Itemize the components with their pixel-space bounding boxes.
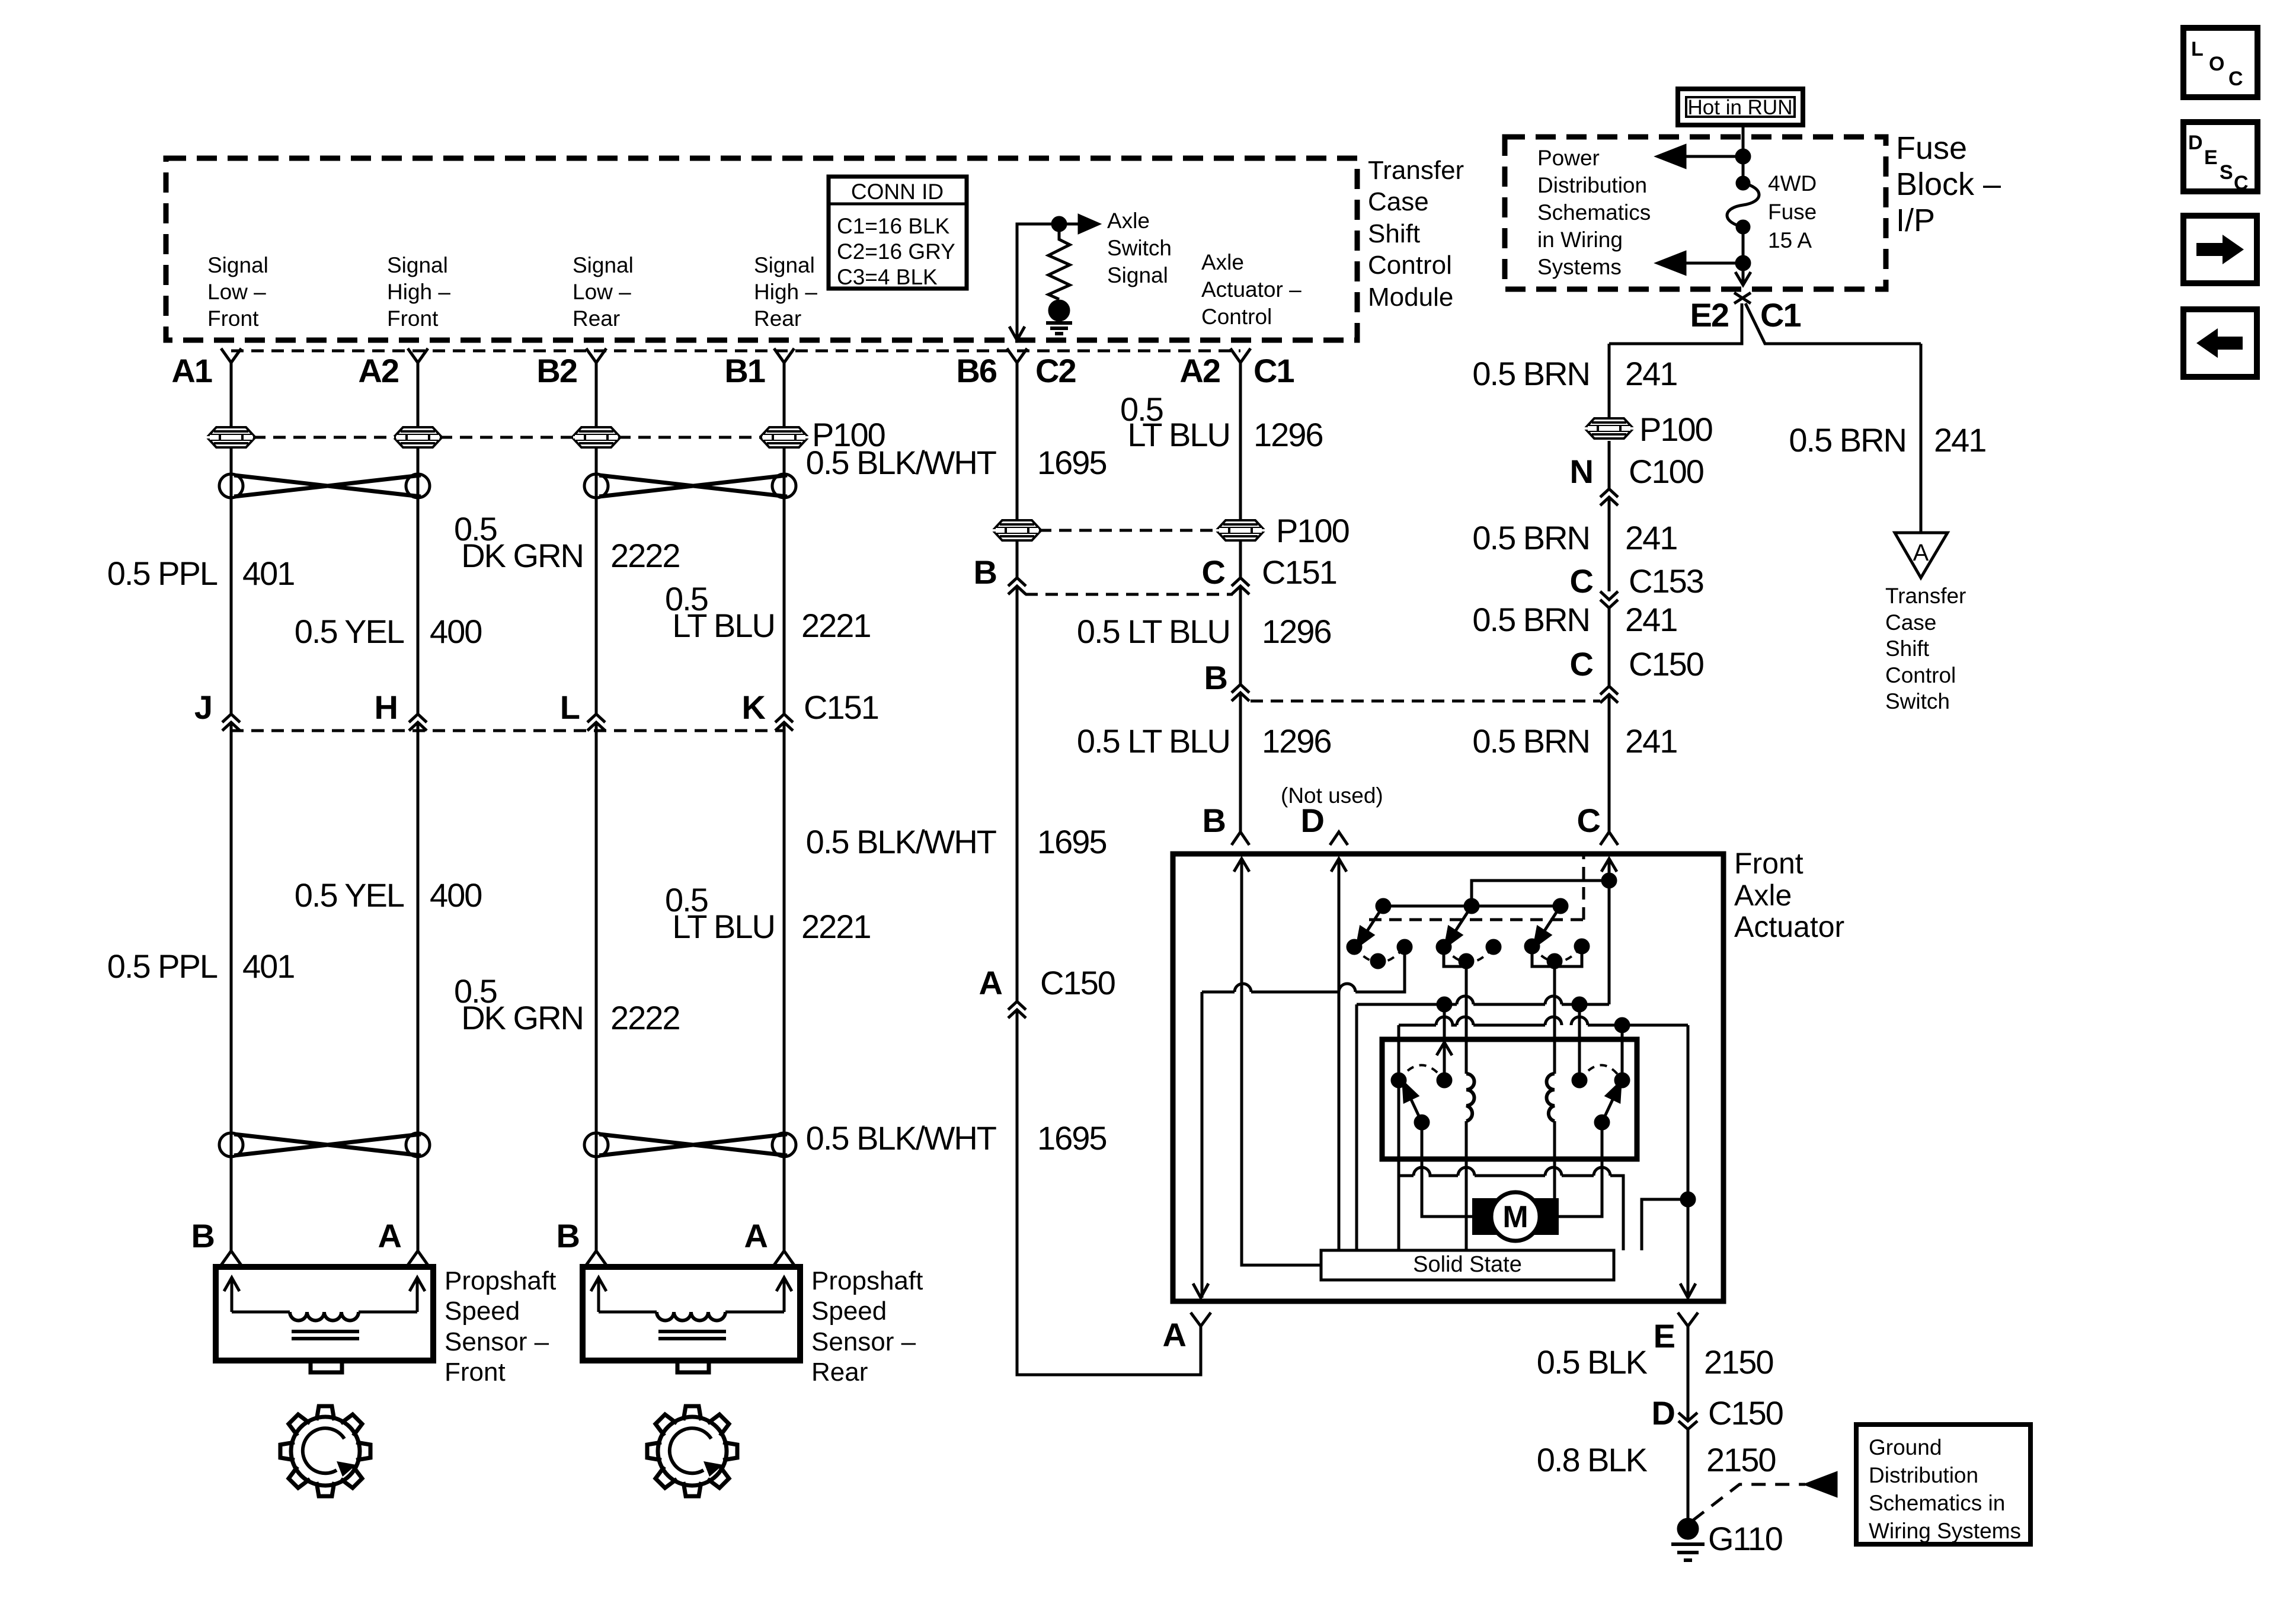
G110 ground lines <box>1671 1544 1705 1560</box>
svg-text:B1: B1 <box>724 352 765 389</box>
switch dashed arcs <box>1354 947 1405 962</box>
switch common bus <box>1383 905 1560 908</box>
C C150 connector chevrons <box>1600 686 1618 703</box>
row1 distribution line <box>1357 996 1609 1004</box>
front sensor inductor <box>290 1312 359 1321</box>
wire BRN to C150 <box>1608 608 1611 686</box>
E pin down arrow <box>1680 1283 1696 1298</box>
svg-text:0.5 LT BLU: 0.5 LT BLU <box>1077 613 1230 650</box>
svg-text:B: B <box>1204 659 1227 696</box>
svg-text:D: D <box>1652 1394 1675 1432</box>
svg-text:Low –: Low – <box>573 280 631 304</box>
svg-text:1695: 1695 <box>1037 1119 1107 1157</box>
right arrow icon <box>2196 235 2244 264</box>
svg-text:Actuator: Actuator <box>1734 910 1844 943</box>
left arrow icon <box>2196 328 2243 358</box>
svg-text:Propshaft: Propshaft <box>811 1266 923 1295</box>
svg-text:P100: P100 <box>1639 411 1712 448</box>
wire A2 upper segment <box>417 363 420 714</box>
Transfer Case Shift Control Module dashed box <box>166 158 1357 340</box>
left coil <box>1466 1074 1475 1121</box>
wire BRN to actuator pin C <box>1608 694 1611 832</box>
motor left feed wire <box>1422 1122 1472 1217</box>
svg-text:C: C <box>1570 645 1593 683</box>
svg-text:Module: Module <box>1368 283 1453 312</box>
wire B2 lower segment <box>595 722 598 1251</box>
svg-text:Transfer: Transfer <box>1368 156 1464 185</box>
switch arc bottom dots <box>1371 955 1384 968</box>
wire A1 upper segment <box>230 363 233 714</box>
C151 connector chevrons on K wire <box>775 714 793 731</box>
middle switch left contact L wire <box>1444 947 1466 966</box>
svg-text:Axle: Axle <box>1107 209 1150 233</box>
svg-text:C150: C150 <box>1708 1394 1783 1432</box>
svg-text:C150: C150 <box>1629 645 1703 683</box>
svg-text:Front: Front <box>1734 847 1803 880</box>
motor right feed wire <box>1559 1122 1602 1217</box>
svg-text:Systems: Systems <box>1537 255 1622 279</box>
svg-text:Block –: Block – <box>1896 167 2001 202</box>
fuse feed junction dot upper <box>1737 150 1750 163</box>
wire 0.5 BRN 241 right branch <box>1920 344 1923 533</box>
C C153 connector chevrons pointing down <box>1600 591 1618 608</box>
svg-text:L: L <box>2191 38 2204 60</box>
svg-text:0.5 BLK/WHT: 0.5 BLK/WHT <box>806 1119 996 1157</box>
svg-text:DK GRN: DK GRN <box>461 537 583 574</box>
ground reference dashed line <box>1693 1484 1805 1521</box>
svg-text:B: B <box>1203 802 1225 839</box>
C151 connector chevrons on H wire <box>409 714 427 731</box>
svg-text:Control: Control <box>1885 663 1956 687</box>
wire 2360 left contact column <box>1398 1025 1400 1250</box>
svg-text:Sensor –: Sensor – <box>811 1327 916 1356</box>
svg-text:CONN ID: CONN ID <box>851 180 944 204</box>
DESC icon box <box>2183 122 2257 191</box>
twisted pair symbol B2/B1 lower <box>584 1133 796 1157</box>
svg-text:M: M <box>1502 1200 1528 1234</box>
axle switch ground ball <box>1050 301 1069 320</box>
svg-text:S: S <box>2220 161 2233 184</box>
rear sensor tab <box>677 1361 709 1372</box>
actuator internal up arrow C <box>1601 859 1617 872</box>
actuator internal up arrow B <box>1234 859 1249 872</box>
P100 grommet on B1 <box>762 427 806 447</box>
E column junction dot <box>1681 1193 1694 1206</box>
svg-text:Signal: Signal <box>754 253 815 277</box>
LOC icon box <box>2183 28 2257 97</box>
inner box dashed arcs <box>1399 1065 1444 1081</box>
row2 distribution line <box>1399 1017 1688 1025</box>
svg-text:241: 241 <box>1625 355 1677 392</box>
front gear wheel <box>291 1417 360 1486</box>
C1 leg wire <box>1745 303 1921 344</box>
CONN ID box <box>829 177 967 289</box>
motor terminal blocks <box>1472 1198 1499 1235</box>
svg-text:2221: 2221 <box>801 908 871 945</box>
svg-text:Speed: Speed <box>811 1297 887 1326</box>
svg-text:B2: B2 <box>536 352 577 389</box>
svg-text:Hot in RUN: Hot in RUN <box>1688 96 1793 119</box>
A pin Y below actuator <box>1191 1313 1211 1326</box>
rear sensor core lines <box>658 1331 726 1339</box>
svg-text:High –: High – <box>387 280 450 304</box>
twisted pair symbol B2/B1 upper <box>584 474 796 498</box>
svg-text:A2: A2 <box>358 352 398 389</box>
wire BRN to C153 <box>1608 497 1611 591</box>
svg-text:Signal: Signal <box>573 253 634 277</box>
svg-text:C100: C100 <box>1629 453 1703 490</box>
bus dots <box>1377 900 1390 913</box>
pin A1 connector Y <box>221 348 241 365</box>
svg-text:Fuse: Fuse <box>1768 200 1817 224</box>
actuator internal wire C <box>1608 859 1611 1004</box>
svg-text:D: D <box>1301 802 1324 839</box>
svg-text:1296: 1296 <box>1262 613 1331 650</box>
sensor rear pin B lambda <box>586 1251 606 1265</box>
svg-text:A1: A1 <box>171 352 212 389</box>
left coil lower wire to solid state <box>1465 1121 1468 1250</box>
svg-text:P100: P100 <box>1276 512 1349 549</box>
pin B1 connector Y <box>774 348 794 363</box>
N C100 connector chevrons <box>1600 489 1618 505</box>
P100 grommet on C1 wire <box>1219 520 1262 540</box>
svg-text:DK GRN: DK GRN <box>461 999 583 1036</box>
actuator pin C lambda <box>1600 832 1618 845</box>
fuse feed junction dot lower <box>1737 257 1750 270</box>
svg-text:Power: Power <box>1537 146 1600 170</box>
B/C C150 dashed connector line <box>1251 700 1600 703</box>
motor inner box <box>1382 1039 1637 1159</box>
svg-text:Control: Control <box>1368 251 1452 280</box>
P100 grommet on A2 <box>396 427 440 447</box>
svg-text:241: 241 <box>1625 601 1677 638</box>
axle switch signal right arrowhead <box>1079 216 1098 232</box>
svg-text:Front: Front <box>445 1358 506 1387</box>
svg-text:4WD: 4WD <box>1768 171 1817 196</box>
svg-text:C150: C150 <box>1040 964 1115 1001</box>
wire BRN below P100 <box>1608 441 1611 489</box>
svg-text:0.5 YEL: 0.5 YEL <box>295 613 404 650</box>
wire A1 lower segment <box>230 722 233 1251</box>
switch feed line to bus <box>1472 881 1609 906</box>
svg-text:Fuse: Fuse <box>1896 130 1967 166</box>
svg-text:0.5 BRN: 0.5 BRN <box>1472 355 1590 392</box>
P100 dashed grommet link line <box>253 436 762 439</box>
actuator internal up arrow D <box>1331 859 1347 872</box>
svg-text:C: C <box>2234 172 2249 194</box>
E2 leg wire <box>1609 303 1742 344</box>
svg-text:2150: 2150 <box>1704 1343 1773 1381</box>
svg-text:Solid State: Solid State <box>1413 1252 1522 1277</box>
power distribution arrow upper <box>1658 146 1743 167</box>
C151 connector chevrons B on wire 1716 <box>1008 578 1026 594</box>
fuse output wire <box>1742 227 1745 285</box>
sensor front pin A lambda <box>408 1251 428 1265</box>
wire 2093 segment <box>1239 586 1242 684</box>
axle switch down arrow into module edge <box>1009 327 1025 340</box>
CONN ID title separator <box>829 203 967 206</box>
inner up arrow on wire 2437 <box>1437 1042 1452 1055</box>
wire A2 lower segment <box>417 722 420 1251</box>
actuator pin B lambda <box>1232 832 1249 845</box>
left switch output wire to A column <box>1202 947 1405 992</box>
Hot in RUN box <box>1678 89 1803 125</box>
right arrow icon box <box>2183 216 2257 283</box>
inner left wiper <box>1415 1116 1428 1129</box>
pin A2/C1 connector Y <box>1230 348 1251 363</box>
svg-text:Rear: Rear <box>573 306 620 331</box>
svg-text:C: C <box>2228 68 2243 90</box>
svg-text:Front: Front <box>387 306 439 331</box>
E branch to solid state <box>1642 1199 1688 1250</box>
power distribution arrow lower <box>1658 252 1743 274</box>
wire 2093 segment to actuator pin B <box>1239 693 1242 832</box>
svg-text:C: C <box>1202 553 1225 591</box>
E column from row2 <box>1687 1025 1690 1298</box>
svg-text:0.5 YEL: 0.5 YEL <box>295 876 404 914</box>
wire 2623 right switch to right coil <box>1553 961 1556 1074</box>
P100 grommet on B6 wire <box>995 520 1039 540</box>
svg-text:0.5 LT BLU: 0.5 LT BLU <box>1077 722 1230 760</box>
svg-text:0.5 BRN: 0.5 BRN <box>1472 601 1590 638</box>
actuator pin D lambda (not used) <box>1330 832 1348 845</box>
svg-text:A2: A2 <box>1179 352 1220 389</box>
wiper arrow 2 <box>1452 906 1472 936</box>
svg-text:0.5 PPL: 0.5 PPL <box>107 555 218 592</box>
wire B6/C2 down to P100 <box>1016 363 1019 578</box>
svg-text:C153: C153 <box>1629 562 1703 600</box>
front sensor core lines <box>292 1331 359 1339</box>
C151 middle dashed connector line <box>1025 593 1233 596</box>
sensor front pin B lambda <box>221 1251 241 1265</box>
P100 grommet on BRN wire <box>1587 418 1631 438</box>
svg-text:C2: C2 <box>1035 352 1076 389</box>
E wire to C150 <box>1687 1326 1690 1421</box>
svg-text:0.5 BRN: 0.5 BRN <box>1472 519 1590 556</box>
row1 junction dots <box>1438 998 1451 1011</box>
svg-text:C1: C1 <box>1760 296 1801 334</box>
svg-text:400: 400 <box>430 876 481 914</box>
A pin down arrow <box>1193 1283 1208 1298</box>
svg-text:C: C <box>1577 802 1600 839</box>
svg-text:Shift: Shift <box>1368 219 1420 248</box>
pin A2 connector Y <box>408 348 428 363</box>
svg-text:C3=4 BLK: C3=4 BLK <box>837 265 938 289</box>
svg-text:2150: 2150 <box>1706 1441 1776 1478</box>
svg-text:241: 241 <box>1625 722 1677 760</box>
svg-text:Axle: Axle <box>1201 250 1244 274</box>
svg-text:Signal: Signal <box>1107 263 1168 287</box>
Propshaft Speed Sensor Front box <box>216 1267 433 1361</box>
inner box contact dots <box>1392 1074 1405 1087</box>
P100 grommet on B2 <box>574 427 618 447</box>
actuator internal wire D <box>1338 859 1341 1250</box>
svg-text:G110: G110 <box>1708 1520 1782 1557</box>
wire 2737 from row2 to right switch right contact <box>1621 1025 1624 1080</box>
svg-text:Signal: Signal <box>207 253 268 277</box>
fuse element end dots <box>1737 177 1749 189</box>
svg-text:E: E <box>1654 1317 1675 1355</box>
wire 1716 lower route to actuator pin A <box>1017 1010 1201 1375</box>
svg-text:Control: Control <box>1201 305 1272 329</box>
svg-text:N: N <box>1570 453 1593 490</box>
svg-text:O: O <box>2209 53 2224 75</box>
svg-text:C151: C151 <box>1262 553 1336 591</box>
right coil <box>1547 1074 1555 1121</box>
svg-text:Axle: Axle <box>1734 879 1792 912</box>
svg-text:Transfer: Transfer <box>1885 584 1966 608</box>
wire B1 lower segment <box>783 722 786 1251</box>
svg-text:0.5 PPL: 0.5 PPL <box>107 948 218 985</box>
svg-text:A: A <box>744 1217 768 1254</box>
svg-text:A: A <box>1913 540 1929 566</box>
svg-text:B: B <box>557 1217 579 1254</box>
svg-text:A: A <box>1163 1316 1186 1353</box>
svg-text:400: 400 <box>430 613 481 650</box>
G110 ground ball <box>1678 1519 1697 1538</box>
front gear teeth <box>280 1406 370 1496</box>
svg-text:L: L <box>560 689 580 726</box>
svg-text:0.5 BLK/WHT: 0.5 BLK/WHT <box>806 444 996 481</box>
front sensor internal arrows and coil <box>224 1278 425 1312</box>
svg-text:Shift: Shift <box>1885 636 1930 661</box>
D C150 connector chevrons pointing down <box>1678 1413 1697 1429</box>
actuator internal wire B <box>1242 859 1321 1265</box>
pin B2 connector Y <box>586 348 606 363</box>
switch linkage dashed <box>1369 856 1584 920</box>
wire B1 upper segment <box>783 363 786 714</box>
C151 dashed connector line <box>231 729 784 732</box>
svg-text:Case: Case <box>1885 610 1936 635</box>
transfer case shift control switch triangle A <box>1895 533 1948 578</box>
svg-text:0.5 BLK: 0.5 BLK <box>1537 1343 1648 1381</box>
wire A2/C1 down to P100 <box>1239 363 1242 578</box>
wire 1716 segment to A C150 <box>1016 586 1019 1001</box>
svg-text:D: D <box>2188 132 2203 154</box>
switch contact dots row <box>1348 940 1361 953</box>
svg-text:in Wiring: in Wiring <box>1537 228 1623 252</box>
left arrow icon box <box>2183 309 2257 377</box>
P100 dashed link middle <box>1039 529 1219 532</box>
svg-text:C2=16 GRY: C2=16 GRY <box>837 239 955 264</box>
svg-text:C1: C1 <box>1253 352 1294 389</box>
svg-text:0.5 BRN: 0.5 BRN <box>1472 722 1590 760</box>
svg-text:2222: 2222 <box>610 537 680 574</box>
rear sensor inductor <box>657 1312 725 1321</box>
svg-text:0.5 BRN: 0.5 BRN <box>1789 421 1906 459</box>
switch feed junction dot on C <box>1603 874 1616 887</box>
ground reference arrow <box>1806 1473 1836 1496</box>
svg-text:I/P: I/P <box>1896 203 1935 238</box>
svg-text:Speed: Speed <box>445 1297 520 1326</box>
twisted pair symbol A1/A2 upper <box>219 474 430 498</box>
axle switch signal wire with corner <box>1017 224 1079 340</box>
svg-text:C1=16 BLK: C1=16 BLK <box>837 214 950 238</box>
svg-text:Schematics: Schematics <box>1537 200 1651 225</box>
svg-text:401: 401 <box>242 555 294 592</box>
Propshaft Speed Sensor Rear box <box>583 1267 800 1361</box>
svg-text:B: B <box>974 553 996 591</box>
svg-text:K: K <box>742 689 766 726</box>
svg-text:1695: 1695 <box>1037 444 1107 481</box>
svg-text:(Not used): (Not used) <box>1281 783 1383 808</box>
svg-text:Rear: Rear <box>811 1358 868 1387</box>
svg-text:J: J <box>194 689 212 726</box>
C151 connector chevrons C on wire 2093 <box>1232 578 1249 594</box>
svg-text:E: E <box>2204 146 2218 169</box>
rear sensor internal arrows and coil <box>591 1278 792 1312</box>
axle switch resistor <box>1048 224 1070 299</box>
fuse box exit down arrow <box>1735 272 1751 285</box>
svg-text:Low –: Low – <box>207 280 266 304</box>
svg-text:241: 241 <box>1625 519 1677 556</box>
svg-text:C151: C151 <box>804 689 878 726</box>
row2 junction dot <box>1616 1019 1629 1032</box>
svg-text:LT BLU: LT BLU <box>672 607 775 644</box>
axle switch ground lines <box>1046 323 1072 334</box>
C151 connector chevrons on J wire <box>222 714 240 731</box>
svg-text:401: 401 <box>242 948 294 985</box>
P100 grommet on A1 <box>209 427 253 447</box>
A C150 connector chevrons <box>1008 1001 1026 1018</box>
wiper arrow 1 <box>1364 906 1383 936</box>
rear gear teeth <box>647 1406 737 1496</box>
svg-text:Propshaft: Propshaft <box>445 1266 556 1295</box>
sensor rear pin A lambda <box>774 1251 794 1265</box>
fuse block dashed box <box>1505 137 1886 289</box>
wire 2474 middle switch to left coil <box>1465 961 1468 1074</box>
svg-text:1695: 1695 <box>1037 823 1107 860</box>
svg-text:Signal: Signal <box>387 253 448 277</box>
row1 left drop to solid state <box>1355 1004 1358 1250</box>
svg-text:LT BLU: LT BLU <box>672 908 775 945</box>
C151 connector chevrons on L wire <box>587 714 605 731</box>
svg-text:Rear: Rear <box>754 306 801 331</box>
wire 2665 from row1 to right switch left contact <box>1578 1004 1581 1080</box>
svg-text:2221: 2221 <box>801 607 871 644</box>
motor circle <box>1491 1192 1540 1241</box>
lower crossover line <box>1399 1167 1623 1250</box>
pin B6/C2 connector Y <box>1007 348 1027 363</box>
svg-text:High –: High – <box>754 280 817 304</box>
svg-text:15 A: 15 A <box>1768 228 1812 252</box>
svg-text:Sensor –: Sensor – <box>445 1327 549 1356</box>
svg-text:0.8 BLK: 0.8 BLK <box>1537 1441 1648 1478</box>
wiper arrow 3 <box>1541 906 1560 936</box>
svg-text:B: B <box>191 1217 214 1254</box>
Solid State box <box>1321 1250 1614 1280</box>
svg-text:Distribution: Distribution <box>1537 173 1647 197</box>
svg-text:1296: 1296 <box>1262 722 1331 760</box>
svg-text:Wiring Systems: Wiring Systems <box>1869 1519 2021 1543</box>
svg-text:0.5 BLK/WHT: 0.5 BLK/WHT <box>806 823 996 860</box>
axle switch junction dot <box>1053 217 1066 231</box>
wire 2437 from row1 to left switch right contact <box>1443 1004 1446 1080</box>
svg-text:Switch: Switch <box>1885 689 1950 713</box>
E2 C1 splice X <box>1734 293 1751 303</box>
rear gear wheel <box>658 1417 727 1486</box>
right switch contact L wires <box>1532 946 1582 966</box>
E pin Y below actuator <box>1678 1313 1698 1326</box>
svg-text:B6: B6 <box>956 352 996 389</box>
front sensor tab <box>311 1361 342 1372</box>
A exit wire inside actuator <box>1201 992 1204 1298</box>
Ground Distribution box <box>1856 1425 2030 1544</box>
svg-text:E2: E2 <box>1690 296 1729 334</box>
Front Axle Actuator box <box>1173 854 1723 1301</box>
ground wire 0.8 BLK <box>1687 1429 1690 1519</box>
wire 0.5 BRN 241 left branch <box>1608 344 1611 418</box>
